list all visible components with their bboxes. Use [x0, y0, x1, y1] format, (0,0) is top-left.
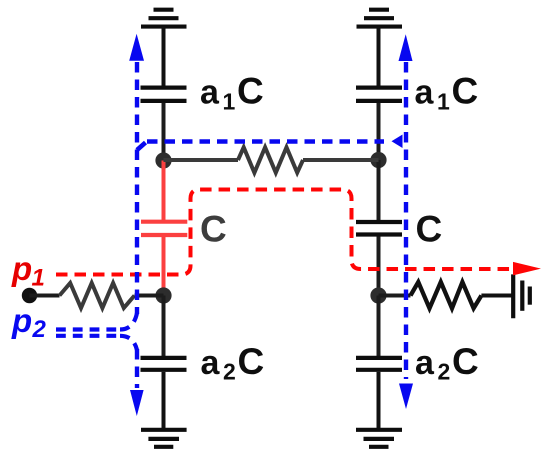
svg-text:C: C — [452, 71, 479, 112]
capacitor a1C (right) — [356, 88, 402, 101]
blue dashed vertical (left branch, upper) — [135, 62, 139, 314]
wire: a2C to bottom-left ground — [162, 372, 166, 429]
svg-text:C: C — [416, 209, 443, 250]
svg-text:a: a — [200, 74, 220, 112]
capacitor a1C (left) — [141, 88, 187, 101]
label a2C (left) — [201, 341, 265, 385]
svg-text:1: 1 — [32, 265, 45, 292]
svg-text:C: C — [238, 341, 265, 382]
resistor R1 (between branches) — [238, 147, 303, 172]
node right-lower — [370, 287, 386, 303]
svg-text:2: 2 — [32, 316, 47, 343]
svg-text:p: p — [11, 250, 32, 287]
wire: resistor R3 to right ground — [481, 294, 512, 298]
blue corner dash (junction left) — [137, 143, 146, 151]
wire: a1C right to node right-upper — [377, 103, 381, 160]
wire: top-left ground to a1C — [162, 27, 166, 86]
label a2C (right) — [415, 341, 479, 385]
blue arrow up (top-right) — [399, 34, 413, 61]
wire: resistor R2 to node left-lower — [135, 294, 164, 298]
ground top-right (inverted) — [357, 10, 403, 27]
label a1C (right) — [415, 71, 479, 115]
resistor R3 (output) — [411, 282, 482, 308]
capacitor a2C (left) — [141, 358, 187, 370]
terminal dot p1 input — [22, 288, 37, 303]
node right-upper — [370, 152, 386, 168]
label a1C (left) — [200, 71, 264, 115]
ground bottom-right — [356, 430, 402, 447]
label p1 — [11, 250, 45, 292]
red dashed path p1 — [56, 190, 512, 275]
svg-text:2: 2 — [223, 359, 236, 385]
wire: top-right ground to a1C right — [377, 27, 381, 86]
wire (red): node to capacitor C left — [162, 161, 166, 221]
wire: node to capacitor C right — [377, 160, 381, 220]
blue dashed horizontal (top link) — [147, 139, 384, 144]
svg-text:1: 1 — [437, 89, 450, 115]
svg-text:C: C — [200, 209, 227, 250]
svg-text:a: a — [415, 344, 435, 382]
blue curve p2 lower to vertical (down branch) — [120, 336, 137, 350]
svg-text:a: a — [415, 74, 435, 112]
blue dashed vertical (left branch, lower) — [135, 349, 139, 388]
ground right (rotated) — [513, 274, 530, 318]
svg-text:p: p — [11, 302, 32, 339]
wire: left node to resistor R1 — [164, 158, 239, 162]
wire: a1C to node (left upper), darker then gray — [162, 103, 166, 160]
wire: resistor R1 to right node — [303, 158, 379, 162]
blue dashed p2 lead (upper line) — [56, 327, 120, 331]
capacitor C (left, red) — [141, 222, 187, 235]
node left-upper — [155, 152, 171, 168]
capacitor C (right) — [356, 222, 402, 235]
svg-text:C: C — [452, 341, 479, 382]
ground bottom-left — [141, 430, 187, 447]
svg-text:2: 2 — [438, 359, 451, 385]
blue curve p2 upper to vertical (up branch) — [120, 313, 137, 330]
wire: capacitor C right to node right-lower — [377, 237, 381, 296]
blue arrow down (bottom-left) — [130, 390, 144, 416]
blue arrow up (top-left) — [129, 34, 144, 61]
wire: node to a2C (right) — [377, 296, 381, 357]
resistor R2 (input) — [60, 283, 135, 308]
svg-text:a: a — [201, 344, 221, 382]
wire: node right-lower to resistor R3 — [379, 294, 411, 298]
wire: p1 terminal to resistor R2 — [30, 294, 60, 298]
blue dashed vertical (right branch) — [404, 62, 408, 379]
blue dashed p2 lead (lower line) — [56, 334, 120, 338]
blue small arrowhead (left-pointing, near right branch) — [392, 135, 403, 149]
blue arrow down (bottom-right) — [399, 384, 413, 410]
wire (red): capacitor C left to node lower — [162, 237, 166, 296]
svg-text:C: C — [237, 71, 264, 112]
capacitor a2C (right) — [356, 358, 402, 370]
label p2 — [11, 302, 47, 343]
red arrowhead (output) — [513, 262, 541, 276]
svg-text:1: 1 — [223, 89, 236, 115]
wire: a2C right to bottom-right ground — [377, 372, 381, 429]
ground top-left (inverted) — [141, 10, 187, 27]
node left-lower — [155, 287, 171, 303]
wire: node to a2C (left) — [162, 296, 166, 357]
